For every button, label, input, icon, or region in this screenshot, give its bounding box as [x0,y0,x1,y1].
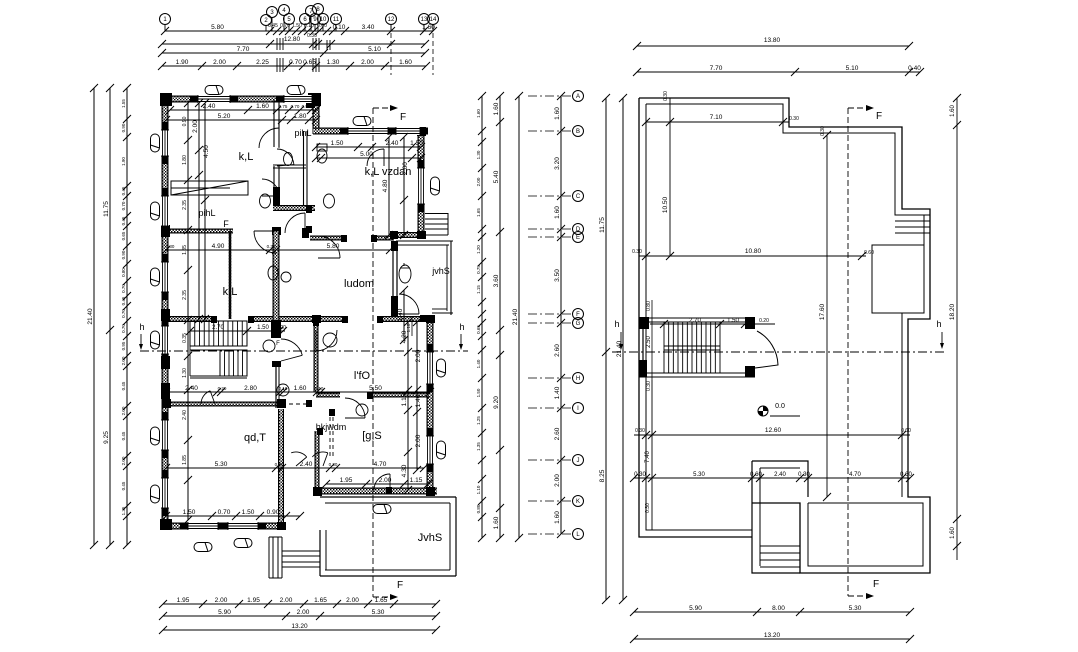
grid axis 12 dashed extension [390,25,392,75]
svg-text:0.60: 0.60 [901,428,911,434]
grid bubble 5 [284,14,295,32]
window marker 1 [205,86,223,95]
grid bubble 6 [300,14,311,32]
svg-text:13.20: 13.20 [291,623,308,630]
left plan qdT right wall [278,409,284,529]
hall dim row [162,385,434,396]
svg-text:0.30: 0.30 [267,244,276,249]
section line F right plan [847,108,849,596]
svg-text:0.90: 0.90 [121,250,126,259]
left plan left wall piers at stair [161,309,170,399]
svg-text:2.00: 2.00 [297,609,310,616]
wall junction block 3 [160,519,172,530]
svg-text:1.30: 1.30 [476,150,481,159]
svg-text:0.75: 0.75 [476,265,481,274]
left plan bottom dim row 3 [159,623,440,634]
svg-text:2.40: 2.40 [774,472,786,478]
svg-text:2.00: 2.00 [554,474,561,487]
door gS-terrace [374,474,390,490]
grid bubble A [528,91,584,102]
section F arrow top left plan [373,105,406,123]
room label JvhS [418,532,442,544]
svg-text:0.20: 0.20 [218,386,227,391]
svg-text:1.15: 1.15 [401,393,408,406]
svg-text:0.30: 0.30 [645,503,651,513]
svg-text:21.40: 21.40 [87,308,94,325]
svg-text:0.10: 0.10 [333,24,346,31]
svg-text:JvhS: JvhS [418,532,442,544]
svg-text:ludom: ludom [344,278,374,290]
dimension chain top row 2 [158,40,429,48]
svg-text:h: h [936,319,941,329]
svg-text:1.40: 1.40 [476,359,481,368]
fixture toilet pihL [317,144,327,163]
svg-text:C: C [576,194,581,200]
door jamb 2 [342,316,348,323]
left plan pantry wall horizontal [162,229,233,234]
window marker 3 [353,117,371,126]
svg-text:1.40: 1.40 [397,308,404,321]
left plan exterior wall bottom-left [162,523,284,530]
svg-text:8.25: 8.25 [599,469,606,482]
dimension label 12.80 [284,36,301,43]
svg-text:11.75: 11.75 [103,201,110,217]
svg-text:0.30: 0.30 [634,472,646,478]
grid bubble G [528,318,584,329]
svg-text:1.95: 1.95 [177,597,190,604]
svg-text:1.30: 1.30 [182,368,188,378]
right plan stair vertical dims [646,300,652,391]
door pantry [262,179,279,196]
right plan left chain total [616,94,627,604]
svg-text:G: G [576,321,581,327]
dimension chain top row 3 [158,46,429,57]
door jamb 10 [306,206,312,213]
svg-text:2.25: 2.25 [256,59,269,66]
grid bubble 7 [306,6,317,32]
right plan left chain halves [599,94,610,604]
svg-text:0.70: 0.70 [289,59,302,66]
dimension chain top row 4 [158,59,430,70]
middle chain 2 [493,92,504,542]
svg-text:0.30: 0.30 [275,462,284,467]
svg-text:0.30: 0.30 [789,116,799,122]
window opening 15 [426,428,434,472]
dim tiny 0.30 labels [166,244,338,467]
window marker 11 [234,539,252,548]
kL vertical dim b [201,99,210,323]
grid bubble 3 [267,7,278,32]
svg-text:1.35: 1.35 [121,506,126,515]
svg-text:1.50: 1.50 [242,509,255,516]
svg-text:F: F [223,219,229,229]
grid bubble H [528,373,584,384]
right plan stair door arc [755,331,778,368]
svg-text:0.45: 0.45 [121,431,126,440]
grid bubble L [528,529,584,540]
left plan staircase landing [190,346,247,376]
window opening 7 [161,254,169,300]
svg-text:2.00: 2.00 [215,597,228,604]
right plan staircase dim [650,318,775,328]
right plan inner outline [646,104,924,530]
svg-text:1.40: 1.40 [415,394,422,407]
left plan gS left wall [315,431,320,494]
svg-text:H: H [576,376,580,382]
left dimension chain total height [87,84,98,549]
wall junction block 13 [306,99,315,108]
left dimension chain detailed [121,84,131,549]
left plan hall small door arc [201,391,215,404]
svg-text:0.45: 0.45 [121,296,126,305]
wall junction block 1 [160,93,172,106]
svg-text:0.60: 0.60 [900,472,912,478]
window opening 4 [388,127,428,135]
door jamb 1 [248,316,254,323]
svg-text:1.35: 1.35 [476,442,481,451]
grid bubble 2 [261,15,272,32]
window opening 9 [161,412,169,458]
balcony vertical dim 1.10 [406,316,412,336]
svg-text:0.70: 0.70 [121,201,126,210]
section F arrow bottom right plan [848,579,879,599]
left plan fixture toilet pihL upper [284,153,293,166]
window marker 7 [151,331,160,349]
svg-text:1.90: 1.90 [176,59,189,66]
svg-text:1.15: 1.15 [410,477,423,484]
svg-text:0.70: 0.70 [218,509,231,516]
right plan porch tower [752,461,808,573]
svg-text:5.30: 5.30 [849,605,862,612]
section F arrow top right plan [848,105,882,122]
middle chain 3 [512,92,523,542]
grid bubble 8 [313,4,324,32]
grid bubble D [528,224,584,235]
svg-text:0.70: 0.70 [291,104,300,109]
svg-text:11.75: 11.75 [599,217,606,233]
svg-text:14: 14 [430,17,437,23]
svg-text:1.10: 1.10 [476,485,481,494]
svg-text:5.80: 5.80 [211,24,224,31]
section label h left of right plan [614,319,623,350]
grid bubble 14 [428,14,439,32]
fixture toilet corridor 1 [260,194,271,208]
svg-text:2.35: 2.35 [182,290,188,300]
grid bubble 10 [318,14,329,32]
svg-text:5.90: 5.90 [689,605,702,612]
svg-text:1.55: 1.55 [121,99,126,108]
svg-text:2.60: 2.60 [554,344,561,357]
kL inner chain [182,99,192,524]
section label h right of right plan [936,319,944,349]
svg-text:0.30: 0.30 [663,91,669,101]
left plan staircase lower flight [190,350,247,378]
grid bubble B [528,126,584,137]
fixture balcony boiler [399,263,411,283]
svg-text:2.00: 2.00 [361,59,374,66]
grid bubble 12 [386,14,397,32]
svg-text:2.00: 2.00 [476,177,481,186]
level marker 0.0 [758,403,800,416]
door jamb 7 [367,392,373,399]
terrace JvhS outline [320,497,456,576]
hall dashed opening line [282,403,312,405]
svg-text:5.00: 5.00 [360,151,373,158]
right plan staircase walls [639,317,755,377]
room label jvhS [431,266,450,276]
door jamb 12 [386,487,392,494]
right plan vertical dim 17.60 [819,131,831,501]
grid bubble 13 [419,14,430,32]
svg-text:0.30: 0.30 [632,249,642,255]
wall projection triple ticks [277,38,330,72]
svg-text:h: h [459,322,464,332]
fixture sink hall [277,384,289,396]
svg-text:5.50: 5.50 [369,385,382,392]
room label pihL [294,128,311,138]
svg-text:0.45: 0.45 [121,481,126,490]
hall dim row tiny labels [218,386,324,391]
svg-text:1.50: 1.50 [183,509,196,516]
svg-text:1.60: 1.60 [256,103,269,110]
svg-text:0.55: 0.55 [302,104,311,109]
door niche left [291,452,307,466]
svg-text:9.20: 9.20 [493,396,500,409]
svg-text:5.10: 5.10 [846,65,859,72]
wall junction block 12 [272,227,281,235]
room label k,L [239,151,254,163]
section line F left plan [372,108,374,597]
svg-text:5.30: 5.30 [693,472,705,478]
svg-text:13.20: 13.20 [764,632,781,639]
svg-text:0.10: 0.10 [279,386,288,391]
left plan ludom right wall [391,241,398,319]
dimension chain top row 1 [161,24,437,35]
left plan bottom dim row 1 [159,597,440,608]
left dimension chain halves [103,84,114,549]
svg-text:0.60: 0.60 [864,250,874,256]
window opening 2 [276,95,320,103]
svg-text:9.25: 9.25 [103,431,110,444]
svg-text:0.70: 0.70 [280,23,290,29]
window marker 2 [287,86,305,95]
svg-text:0.35: 0.35 [182,333,188,343]
svg-text:0.80: 0.80 [476,504,481,513]
left plan pihL lower thick wall [273,205,315,211]
svg-text:7.10: 7.10 [710,114,723,121]
window opening 1 [190,95,238,103]
left plan vzdan right wall [418,131,425,238]
svg-text:F: F [876,111,882,122]
grid bubble C [528,191,584,202]
svg-text:0.80: 0.80 [646,301,652,311]
kL dim row 1 tiny labels [279,104,311,109]
svg-text:2.00: 2.00 [121,356,126,365]
left plan wall between lfO and gS [316,393,430,398]
room label ludom [344,278,374,290]
svg-text:F: F [873,579,879,590]
svg-text:5.30: 5.30 [372,609,385,616]
grid bubble J [528,455,584,466]
wall junction block 2 [308,93,321,106]
svg-text:0.90: 0.90 [267,509,280,516]
svg-text:0.65: 0.65 [476,325,481,334]
svg-text:0.10: 0.10 [304,23,314,29]
svg-text:1.85: 1.85 [182,455,188,465]
right plan right outer chain [949,94,961,560]
window marker 15 [437,441,446,459]
left plan vzdan left partition [302,131,309,238]
svg-text:0.70: 0.70 [121,284,126,293]
svg-text:21.40: 21.40 [616,340,623,357]
svg-text:0.60: 0.60 [750,472,762,478]
window opening 8 [161,318,169,362]
svg-text:1.50: 1.50 [727,318,739,324]
right plan outer outline [639,98,930,573]
right plan bottom-right wing inner [808,503,923,566]
svg-text:21.40: 21.40 [512,308,519,325]
svg-text:4.70: 4.70 [849,472,861,478]
svg-text:0.60: 0.60 [317,23,327,29]
window marker 10 [194,543,212,552]
door jamb 9 [341,235,347,242]
svg-text:1.60: 1.60 [554,206,561,219]
svg-text:7.40: 7.40 [645,451,651,463]
svg-text:18.20: 18.20 [949,303,956,320]
right plan balcony ladder [895,215,930,233]
svg-text:0.70: 0.70 [121,324,126,333]
wall junction block 14 [390,231,398,239]
window opening 13 [417,160,425,212]
wall junction block 6 [417,127,426,136]
dimension tiny labels row 1 cluster [268,23,327,39]
svg-text:0.95: 0.95 [121,341,126,350]
wall junction block 15 [312,315,321,323]
door jamb 5 [306,400,312,407]
wall junction block 16 [162,399,171,408]
window marker 14 [437,359,446,377]
svg-text:0.30: 0.30 [798,472,810,478]
svg-text:3.50: 3.50 [554,269,561,282]
door kL-top [259,128,279,148]
right plan vertical dim 10.50 [662,98,674,260]
wall junction block 8 [426,315,435,323]
door lfO [316,330,337,351]
svg-text:5.10: 5.10 [368,46,381,53]
right plan bottom dim row 2 [630,632,914,643]
svg-text:2.00: 2.00 [121,406,126,415]
kL dim row 2 [162,113,320,124]
room label pihL [198,208,215,218]
svg-text:2.70: 2.70 [689,318,701,324]
left plan qdT top wall [165,402,282,407]
door balcony [399,294,419,314]
svg-text:1.15: 1.15 [476,285,481,294]
svg-text:1.25: 1.25 [476,416,481,425]
svg-text:1.95: 1.95 [340,477,353,484]
wall junction block 5 [277,522,286,530]
fixture hk [356,404,368,416]
svg-text:0.45: 0.45 [121,381,126,390]
svg-text:0.90: 0.90 [182,116,188,126]
door hk [345,398,365,418]
svg-text:0.65: 0.65 [303,59,316,66]
svg-text:0.30: 0.30 [166,244,175,249]
right plan interior top dim [642,114,799,126]
svg-text:3.20: 3.20 [554,157,561,170]
middle chain 1 [476,92,486,542]
window opening 11 [180,522,226,530]
svg-text:1.40: 1.40 [554,386,561,399]
window marker 12 [373,505,391,514]
svg-text:0.40: 0.40 [908,65,921,72]
door niche right [312,452,328,466]
door jamb 13 [317,428,323,435]
right plan interior dim 10.80 [632,248,874,260]
door vzdan [367,149,384,166]
svg-text:8.00: 8.00 [772,605,785,612]
room label k,L vzdan [365,166,412,178]
window marker 13 [431,177,440,195]
left plan exterior wall left [162,96,169,529]
svg-text:4.50: 4.50 [203,145,210,158]
svg-text:1.85: 1.85 [182,245,188,255]
left plan staircase upper flight [190,321,247,346]
svg-text:13: 13 [421,17,428,23]
left plan stair dimension [186,325,287,335]
lfO-gS vertical chain b [413,318,422,474]
svg-text:1.60: 1.60 [493,102,500,115]
balcony jvhS outline [396,241,453,321]
right plan staircase landing [664,346,720,350]
svg-text:3.40: 3.40 [362,24,375,31]
svg-text:1.65: 1.65 [375,597,388,604]
right plan porch steps [760,546,800,567]
svg-text:13.80: 13.80 [764,37,781,44]
lower dim row [162,461,428,472]
svg-text:2.00: 2.00 [379,477,392,484]
wall junction block 11 [161,225,170,237]
room label [g,S [362,430,382,442]
svg-text:2.50: 2.50 [646,336,652,348]
window opening 3 [340,127,396,135]
door pihL [285,213,305,233]
left plan vzdan bottom wall segment [391,232,424,238]
wardrobe with diagonal [171,181,248,195]
svg-text:5.20: 5.20 [218,113,231,120]
right plan top dim row 1 [633,37,913,50]
window marker 5 [151,202,160,220]
svg-text:4.80: 4.80 [382,179,389,192]
door jamb 3 [377,316,383,323]
vzdan dim row 1 [312,140,425,151]
window marker 4 [151,134,160,152]
svg-text:h: h [139,322,144,332]
svg-text:0.10: 0.10 [315,386,324,391]
svg-text:11: 11 [333,17,340,23]
door jamb 8 [371,235,377,242]
svg-text:k,L: k,L [223,286,238,298]
svg-text:1.60: 1.60 [476,109,481,118]
grid bubble 4 [279,5,290,32]
fixture lfO [323,333,337,347]
left plan kL middle right wall [271,231,281,408]
svg-text:F: F [276,341,280,347]
svg-text:1.60: 1.60 [950,105,956,117]
svg-text:1.60: 1.60 [950,527,956,539]
svg-text:A: A [576,94,580,100]
svg-text:1.60: 1.60 [493,516,500,529]
